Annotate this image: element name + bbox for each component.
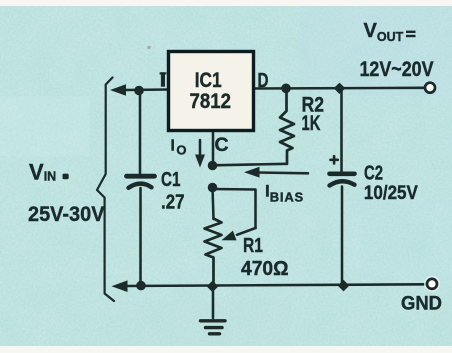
node input junction bbox=[134, 86, 144, 96]
node C upper junction bbox=[208, 161, 218, 171]
plus sign C2 bbox=[331, 156, 338, 163]
svg-text:1K: 1K bbox=[302, 112, 321, 135]
svg-text:12V~20V: 12V~20V bbox=[360, 58, 434, 81]
svg-text:C1: C1 bbox=[161, 169, 181, 191]
wire output rail bbox=[254, 87, 425, 90]
wire ground rail bbox=[125, 284, 428, 286]
capacitor C2 bbox=[330, 174, 355, 186]
wire C pin bbox=[212, 131, 215, 166]
svg-text:7812: 7812 bbox=[190, 90, 232, 113]
svg-text:25V-30V: 25V-30V bbox=[28, 202, 105, 226]
wire ground rail arrow bbox=[112, 280, 128, 292]
arrow Io bbox=[195, 140, 205, 168]
node C lower junction bbox=[208, 183, 218, 193]
wire C2 branch lower bbox=[341, 187, 344, 286]
wire node C to R1 top bbox=[213, 188, 214, 220]
svg-text:10/25V: 10/25V bbox=[364, 183, 418, 204]
node R2 junction bbox=[281, 84, 291, 94]
terminal GND bbox=[424, 276, 440, 292]
node ground junction bbox=[207, 281, 219, 293]
terminal Vout bbox=[425, 83, 435, 93]
ground symbol bbox=[201, 291, 226, 334]
wire input rail arrow bbox=[110, 84, 126, 96]
capacitor C1 bbox=[127, 176, 155, 188]
wire C1 branch upper bbox=[139, 91, 142, 175]
node C2 bottom junction bbox=[338, 280, 350, 292]
resistor R1 bbox=[205, 219, 222, 286]
svg-text:.27: .27 bbox=[161, 191, 185, 213]
resistor R2 bbox=[280, 89, 294, 164]
arrow R1 wiper head bbox=[222, 228, 256, 240]
svg-text:R1: R1 bbox=[243, 235, 263, 257]
wire R2 to node C bbox=[213, 164, 287, 166]
node C1 bottom junction bbox=[136, 281, 146, 291]
brace Vin bbox=[97, 78, 114, 302]
svg-text:GND: GND bbox=[401, 293, 442, 314]
speck (scan dust) bbox=[147, 46, 150, 49]
svg-text:IC1: IC1 bbox=[195, 69, 222, 92]
pin label I bbox=[160, 72, 167, 86]
wire R1 wiper bbox=[213, 189, 256, 228]
svg-text:C2: C2 bbox=[364, 163, 383, 185]
dot Vin bbox=[63, 174, 69, 180]
arrow Ibias bbox=[244, 167, 308, 178]
svg-text:470Ω: 470Ω bbox=[241, 257, 289, 280]
wire C2 branch upper bbox=[340, 88, 343, 171]
node C2 top junction bbox=[334, 83, 346, 94]
svg-text:D: D bbox=[258, 70, 269, 92]
wire C1 branch lower bbox=[139, 188, 142, 286]
equals Vout bbox=[406, 31, 416, 38]
wire input rail bbox=[123, 88, 168, 91]
IC U1 : IC1 7812 regulator box bbox=[169, 52, 254, 131]
svg-text:C: C bbox=[214, 134, 228, 156]
